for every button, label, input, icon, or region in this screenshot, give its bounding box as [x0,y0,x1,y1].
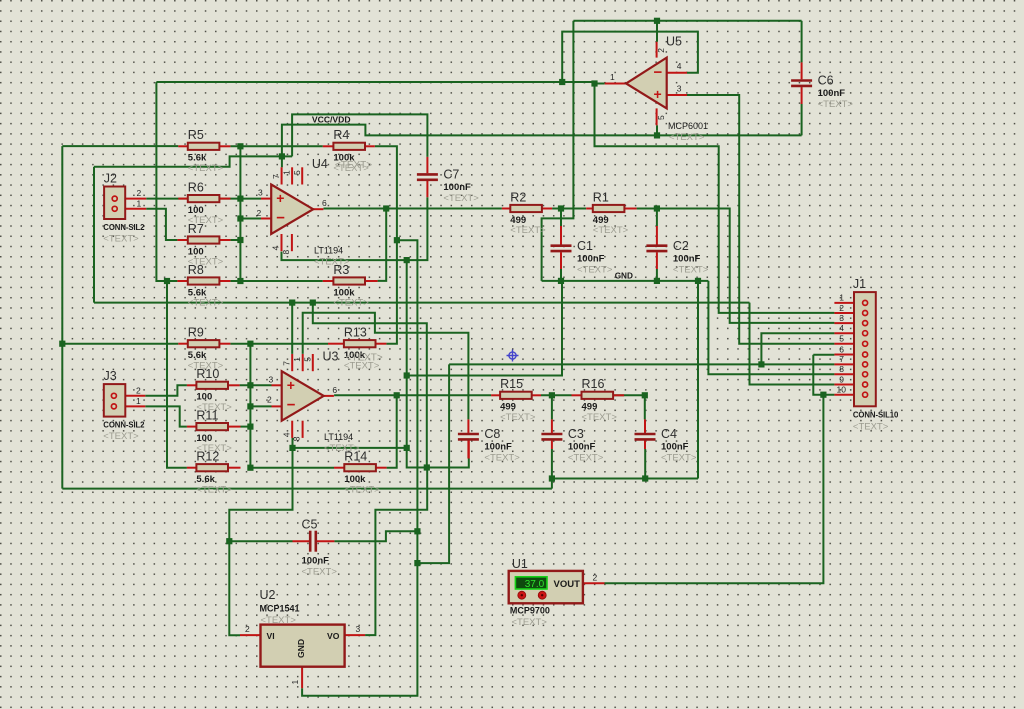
junction node C1 top [558,205,564,211]
svg-text:<TEXT>: <TEXT> [344,484,380,495]
wire VCC to C7 top [292,114,427,156]
svg-text:R11: R11 [196,408,218,422]
op-amp U3 [272,350,383,455]
svg-text:−: − [276,210,285,227]
wire GND to J1 pin 8 [708,281,834,374]
svg-text:8: 8 [292,436,302,441]
junction node U5 pin2 [654,18,660,24]
junction node VCC branch [310,300,316,306]
svg-text:CONN-SIL2: CONN-SIL2 [103,421,145,430]
svg-text:CONN-SIL2: CONN-SIL2 [103,223,145,232]
svg-text:5: 5 [292,170,302,175]
resistor R9 [178,326,230,372]
junction node U3 pin4 [289,445,295,451]
junction node U4 VCC [279,153,285,159]
svg-text:2: 2 [656,48,666,53]
junction node U5 output [591,80,597,86]
resistor R8 [177,263,230,309]
wire VCC/VDD jog to U4 supply [94,156,292,166]
wire jog row488 [551,479,553,489]
connector J3 [103,369,145,442]
svg-text:<TEXT>: <TEXT> [500,412,536,423]
svg-text:MCP6001: MCP6001 [668,121,708,131]
wire U5 pin 3 to J1 pin 5 [687,95,834,344]
svg-text:GND: GND [296,639,306,658]
svg-text:<TEXT>: <TEXT> [103,234,139,245]
origin marker [507,350,519,362]
capacitor C5 [293,518,338,578]
svg-text:7: 7 [281,361,291,366]
svg-text:<TEXT>: <TEXT> [103,431,139,442]
junction node U4 pin2 [237,215,243,221]
resistor R14 [334,450,387,496]
wire J2 pin1 to R7 [146,209,177,240]
svg-text:2: 2 [137,188,142,198]
svg-text:C3: C3 [568,427,584,441]
wire U5 top row [573,20,801,22]
wire to J1 pin 9 [750,303,835,385]
svg-text:R5: R5 [188,128,204,142]
wire J3 pin1 to R11 [145,406,187,426]
svg-text:VCC/VDD: VCC/VDD [312,115,351,125]
wire C4 top [644,395,646,419]
svg-text:MCP1541: MCP1541 [260,604,300,614]
svg-text:−: − [654,64,663,81]
wire R7 right [230,239,240,241]
wire R4 right to R13 [375,146,397,343]
svg-text:+: + [276,190,284,206]
svg-text:100nF: 100nF [661,442,689,453]
junction node R12 right [247,465,253,471]
svg-text:1: 1 [290,680,300,685]
wire R8 to R3 [230,280,322,282]
capacitor C1 [551,226,613,275]
svg-text:LT1194: LT1194 [314,246,343,256]
junction node U3 pin4 GND [404,445,410,451]
resistor R2 [502,190,552,236]
wire R9 left [62,343,178,345]
svg-text:J2: J2 [104,172,117,186]
wire R16 right [613,394,645,396]
svg-text:C7: C7 [443,168,459,182]
svg-text:<TEXT>: <TEXT> [314,257,350,268]
wire J2 pin2 to U4 pin3 [146,198,261,200]
svg-text:<TEXT>: <TEXT> [661,453,697,464]
svg-text:4: 4 [281,432,291,437]
svg-text:2: 2 [593,573,598,583]
junction node R1 right [654,205,660,211]
svg-text:5: 5 [302,357,312,362]
junction node R4 branch [394,237,400,243]
junction node C1 bottom [558,278,564,284]
wire R5 left [62,145,178,147]
capacitor C4 [635,419,697,463]
svg-text:+: + [654,86,662,102]
wire left tall vertical [61,146,63,489]
IC U1 MCP9700 temperature sensor [509,557,605,628]
junction node C3 bottom [549,475,555,481]
wire C3 top [551,395,553,419]
junction node C5 link [414,528,420,534]
wire to J1 pin 4 [761,333,834,364]
svg-text:4: 4 [271,246,281,251]
junction node GND row260 [404,257,410,263]
svg-text:<TEXT>: <TEXT> [510,225,546,236]
svg-text:<TEXT>: <TEXT> [853,422,889,433]
wire GND mid row [407,281,562,376]
resistor R12 [187,450,241,496]
svg-text:8: 8 [281,250,291,255]
wire J1 pin6 to pin10 [813,355,834,395]
svg-text:R12: R12 [196,450,219,464]
svg-text:1: 1 [281,170,291,175]
lead C8 bottom [468,441,470,459]
junction node U3 pin2 [247,403,253,409]
wire C6 bottom [801,104,803,135]
wire C6 top [801,21,803,63]
svg-text:100nF: 100nF [443,182,471,193]
svg-text:+: + [287,377,295,393]
wire GND bus vertical [407,260,469,467]
wire C4 bottom [644,449,646,479]
resistor R15 [491,377,541,423]
svg-text:<TEXT>: <TEXT> [188,163,224,174]
wire R11 right [241,426,251,428]
wire R10 to U3 pin3 [240,384,272,386]
svg-text:2: 2 [267,395,272,405]
svg-text:VI: VI [267,631,275,641]
op-amp U5 [605,35,708,144]
svg-text:37.0: 37.0 [525,579,545,590]
svg-text:<TEXT>: <TEXT> [302,567,338,578]
svg-text:4: 4 [677,61,682,71]
svg-text:R9: R9 [188,326,204,340]
wire R9 to R13 [230,343,328,345]
wire C5 left [229,540,292,542]
junction node J1 pin4 [758,361,764,367]
svg-text:3: 3 [356,624,361,634]
svg-text:2: 2 [839,303,844,313]
wire junction column 250 [249,344,251,468]
svg-text:<TEXT>: <TEXT> [593,225,629,236]
svg-text:1: 1 [137,199,142,209]
svg-text:C6: C6 [818,74,834,88]
capacitor C7 [417,157,479,204]
op-amp U4 [261,157,372,268]
svg-text:1: 1 [839,293,844,303]
wire long bottom row [62,488,552,490]
svg-text:LT1194: LT1194 [324,432,353,442]
resistor R7 [177,222,230,268]
wire U5 out to J1 pin 2 [595,84,835,313]
svg-text:8: 8 [839,364,844,374]
svg-text:GND: GND [615,271,633,280]
wire J1 pin 6 [813,354,834,356]
svg-text:<TEXT>: <TEXT> [484,453,520,464]
wire U3 output row [334,394,491,396]
junction node R16 right [642,392,648,398]
svg-text:<TEXT>: <TEXT> [261,615,297,626]
wire GND down right [697,281,699,479]
svg-text:R1: R1 [593,190,609,204]
wire C7 bottom to U4 pin 4 [282,197,428,260]
svg-text:<TEXT>: <TEXT> [196,484,232,495]
wire U3 pin1 staircase to C8 [303,313,469,420]
wire C2 top [656,209,658,227]
wire caps bottom row [552,478,698,480]
wire R5 to R4 [230,145,322,147]
svg-text:U2: U2 [260,588,276,602]
wire down to R8 [156,82,177,281]
svg-text:100nF: 100nF [302,556,330,567]
wire R2 to R1 [552,208,586,210]
wire to U3 pin2 [250,405,271,407]
wire U4 output row [324,208,502,210]
svg-text:<TEXT>: <TEXT> [324,443,360,454]
junction node C2 bottom [654,278,660,284]
junction node C5 left [226,538,232,544]
svg-text:−: − [287,396,296,413]
svg-text:6: 6 [839,344,844,354]
svg-text:6: 6 [322,198,327,208]
junction node U5 feedback [559,79,565,85]
wire J3 pin2 to R10 [145,385,187,396]
svg-text:<TEXT>: <TEXT> [577,264,613,275]
wire VCC branch to lower row [313,303,427,468]
svg-text:<TEXT>: <TEXT> [335,160,372,171]
svg-text:C2: C2 [673,239,689,253]
svg-text:5: 5 [839,334,844,344]
svg-text:<TEXT>: <TEXT> [673,264,709,275]
svg-text:R8: R8 [188,263,204,277]
wire VCC vertical left [93,167,95,303]
junction node R8 right [237,278,243,284]
wire to U4 pin 7 [281,156,283,167]
svg-text:J3: J3 [104,369,117,383]
resistor R16 [572,377,625,423]
svg-text:<TEXT>: <TEXT> [512,617,548,628]
wire C1 bottom [560,269,562,281]
wire junction column 240 [239,146,241,281]
svg-text:1: 1 [136,396,141,406]
svg-text:3: 3 [677,83,682,93]
svg-text:2: 2 [136,385,141,395]
svg-text:100nF: 100nF [818,88,846,99]
svg-text:100nF: 100nF [484,442,512,453]
wire row 365 to J1 pin 7 [449,363,834,365]
capacitor C6 [791,62,853,110]
svg-text:C4: C4 [661,427,677,441]
wire U5 top to GND row [542,21,574,281]
svg-text:MCP9700: MCP9700 [510,606,550,616]
wire U1 VOUT to J1 [605,395,824,584]
resistor R5 [178,128,230,174]
svg-text:C5: C5 [302,518,318,532]
svg-text:<TEXT>: <TEXT> [568,453,604,464]
wire output to R3 right [378,209,387,281]
svg-text:<TEXT>: <TEXT> [582,412,618,423]
capacitor C8 [458,419,520,463]
junction node J1 pin10 [820,392,826,398]
junction node GND mid [404,372,410,378]
IC U2 MCP1541 voltage reference [240,588,365,688]
junction node R15 right [549,392,555,398]
svg-text:5: 5 [656,115,666,120]
svg-text:9: 9 [839,374,844,384]
svg-text:R4: R4 [333,128,349,142]
svg-text:R7: R7 [188,222,204,236]
wire R15 to R16 [541,394,572,396]
svg-text:R16: R16 [582,377,605,391]
wire R8 to R12 [167,281,187,468]
svg-text:3: 3 [258,188,263,198]
wire VCC row to J1 [94,302,750,304]
junction node R11 right [247,424,253,430]
wire to U3 pin 7 [291,303,293,354]
svg-text:<TEXT>: <TEXT> [333,298,369,309]
svg-text:R10: R10 [196,367,219,381]
svg-text:R6: R6 [188,180,204,194]
resistor R3 [323,263,378,309]
wire VCC/VDD upper row to C6 [282,125,802,157]
svg-text:<TEXT>: <TEXT> [443,193,479,204]
wire to U5 pin 2 [656,21,658,42]
junction node R9 right [247,341,253,347]
svg-text:<TEXT>: <TEXT> [669,132,705,143]
svg-text:C1: C1 [577,239,593,253]
wire long vertical to U2 GND [302,240,417,696]
wire row365 down [417,364,449,563]
svg-text:R2: R2 [510,190,526,204]
svg-text:U1: U1 [512,557,528,571]
svg-text:100nF: 100nF [673,253,701,264]
svg-text:<TEXT>: <TEXT> [188,298,224,309]
svg-text:R13: R13 [344,326,367,340]
connector J2 [103,172,146,245]
wire C3 bottom [551,449,553,479]
resistor R11 [187,408,241,454]
svg-text:VO: VO [327,631,340,641]
svg-text:R15: R15 [500,377,523,391]
resistor R13 [328,326,386,372]
capacitor C3 [541,419,603,463]
svg-text:1: 1 [610,72,615,82]
svg-text:100nF: 100nF [577,253,605,264]
wire R12 to R14 [250,467,334,469]
svg-text:C8: C8 [484,427,500,441]
resistor R10 [187,367,240,413]
resistor R6 [178,180,230,226]
junction node U3 out [394,392,400,398]
svg-text:3: 3 [839,313,844,323]
svg-text:100nF: 100nF [568,442,596,453]
svg-text:U3: U3 [323,350,339,364]
wire U5 output row 82 [156,81,594,83]
wire to U4 pin2 [240,218,261,220]
wire to U2 VI [229,448,292,635]
junction node GND right [695,278,701,284]
svg-text:6: 6 [332,385,337,395]
wire R1 to J1 pin 3 [637,209,835,323]
svg-text:U4: U4 [312,157,328,171]
junction node R8 left [164,278,170,284]
junction node row467 [424,464,430,470]
junction node R10 right [247,382,253,388]
junction node R5/R4 [237,143,243,149]
svg-text:10: 10 [837,385,847,395]
junction node R7 right [237,237,243,243]
wire C2 bottom [656,269,658,281]
svg-text:<TEXT>: <TEXT> [346,353,383,364]
svg-text:7: 7 [839,354,844,364]
wire U5 output stub [595,83,605,85]
wire U3 pin4 row [293,438,407,448]
wire U5 pin 5 [656,125,658,135]
svg-text:VOUT: VOUT [554,579,581,590]
wire C1 top [560,209,562,227]
junction node U4 out [383,205,389,211]
junction node R9 left [59,341,65,347]
junction node U3 supply [289,300,295,306]
svg-text:4: 4 [839,323,844,333]
junction node C4 bottom [642,475,648,481]
wire output to R14 right [387,395,397,467]
junction node R6 right [237,196,243,202]
svg-text:2: 2 [257,208,262,218]
wire U5 feedback pin 4 [562,32,698,82]
svg-text:U5: U5 [666,35,682,49]
svg-text:7: 7 [271,174,281,179]
resistor R4 [323,128,375,174]
wire C5 right jog [334,531,417,541]
svg-text:<TEXT>: <TEXT> [818,99,854,110]
wire GND row [542,280,709,282]
junction node U5 pin5 [654,132,660,138]
svg-text:CONN-SIL10: CONN-SIL10 [853,411,899,420]
capacitor C2 [646,226,708,275]
wire U2 VO up [365,468,427,636]
resistor R1 [586,190,636,236]
svg-text:1: 1 [292,357,302,362]
svg-text:3: 3 [269,374,274,384]
svg-text:2: 2 [245,624,250,634]
junction node row365 link [414,560,420,566]
connector J1 [834,277,899,433]
svg-text:J1: J1 [853,277,866,291]
